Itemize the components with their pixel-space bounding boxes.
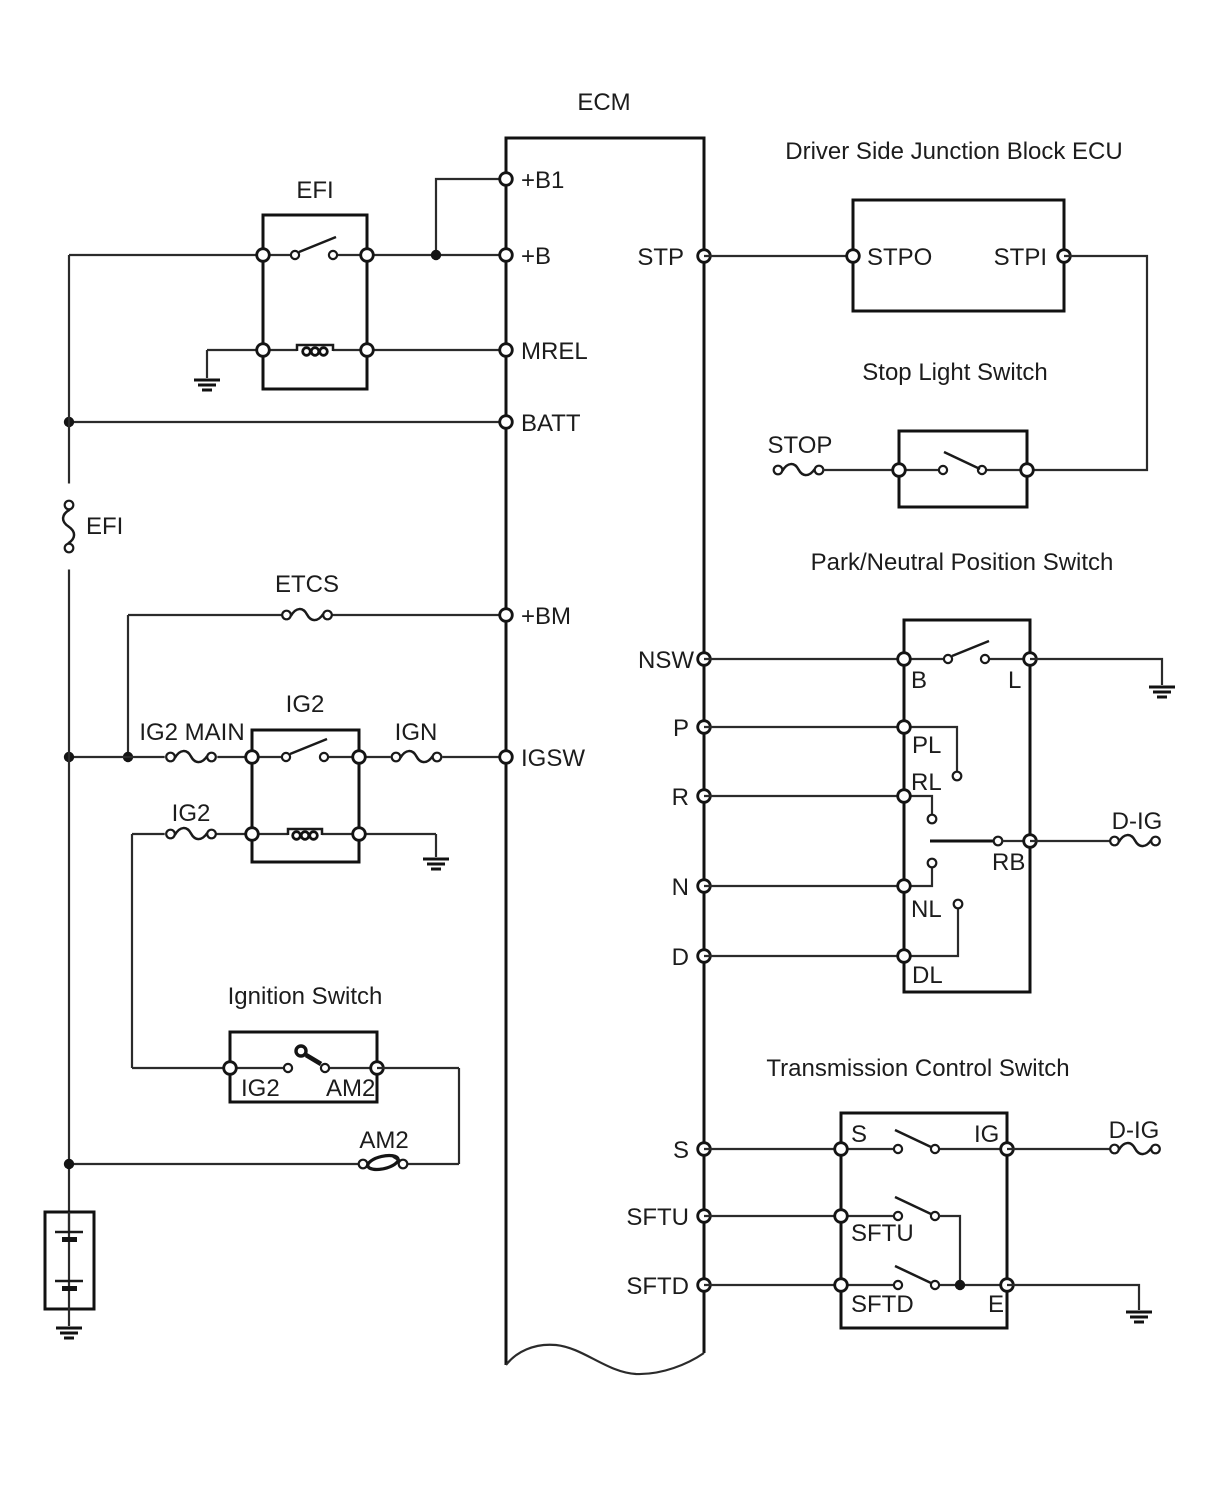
svg-text:+B1: +B1 <box>521 167 564 194</box>
svg-text:B: B <box>911 667 927 694</box>
svg-text:RB: RB <box>992 849 1025 876</box>
svg-text:Stop Light Switch: Stop Light Switch <box>862 359 1047 386</box>
svg-text:EFI: EFI <box>86 513 123 540</box>
svg-text:BATT: BATT <box>521 410 581 437</box>
svg-text:DL: DL <box>912 962 943 989</box>
svg-text:ETCS: ETCS <box>275 571 339 598</box>
svg-text:Park/Neutral Position Switch: Park/Neutral Position Switch <box>811 549 1114 576</box>
svg-text:N: N <box>672 874 689 901</box>
svg-text:NSW: NSW <box>638 647 694 674</box>
svg-text:S: S <box>673 1137 689 1164</box>
svg-text:AM2: AM2 <box>326 1075 375 1102</box>
svg-text:IG2 MAIN: IG2 MAIN <box>139 719 244 746</box>
svg-text:Transmission Control Switch: Transmission Control Switch <box>766 1055 1069 1082</box>
svg-text:S: S <box>851 1121 867 1148</box>
svg-text:IGN: IGN <box>395 719 438 746</box>
svg-text:MREL: MREL <box>521 338 588 365</box>
svg-text:STP: STP <box>637 244 684 271</box>
svg-text:SFTD: SFTD <box>851 1291 914 1318</box>
svg-text:AM2: AM2 <box>359 1127 408 1154</box>
svg-text:PL: PL <box>912 732 941 759</box>
svg-text:P: P <box>673 715 689 742</box>
svg-text:SFTD: SFTD <box>626 1273 689 1300</box>
svg-text:ECM: ECM <box>577 89 630 116</box>
svg-text:D: D <box>672 944 689 971</box>
svg-text:+BM: +BM <box>521 603 571 630</box>
svg-text:IG: IG <box>974 1121 999 1148</box>
svg-text:IG2: IG2 <box>172 800 211 827</box>
svg-text:IG2: IG2 <box>241 1075 280 1102</box>
svg-text:STOP: STOP <box>768 432 833 459</box>
svg-text:L: L <box>1008 667 1021 694</box>
svg-text:STPO: STPO <box>867 244 932 271</box>
svg-text:SFTU: SFTU <box>851 1220 914 1247</box>
svg-text:RL: RL <box>911 769 942 796</box>
svg-text:IGSW: IGSW <box>521 745 585 772</box>
svg-text:EFI: EFI <box>296 177 333 204</box>
svg-text:E: E <box>988 1291 1004 1318</box>
svg-text:Ignition Switch: Ignition Switch <box>228 983 383 1010</box>
svg-text:R: R <box>672 784 689 811</box>
svg-text:+B: +B <box>521 243 551 270</box>
svg-text:NL: NL <box>911 896 942 923</box>
svg-text:D-IG: D-IG <box>1112 808 1163 835</box>
svg-text:STPI: STPI <box>994 244 1047 271</box>
svg-text:Driver Side Junction Block ECU: Driver Side Junction Block ECU <box>785 138 1122 165</box>
svg-text:IG2: IG2 <box>286 691 325 718</box>
svg-text:SFTU: SFTU <box>626 1204 689 1231</box>
svg-text:D-IG: D-IG <box>1109 1117 1160 1144</box>
